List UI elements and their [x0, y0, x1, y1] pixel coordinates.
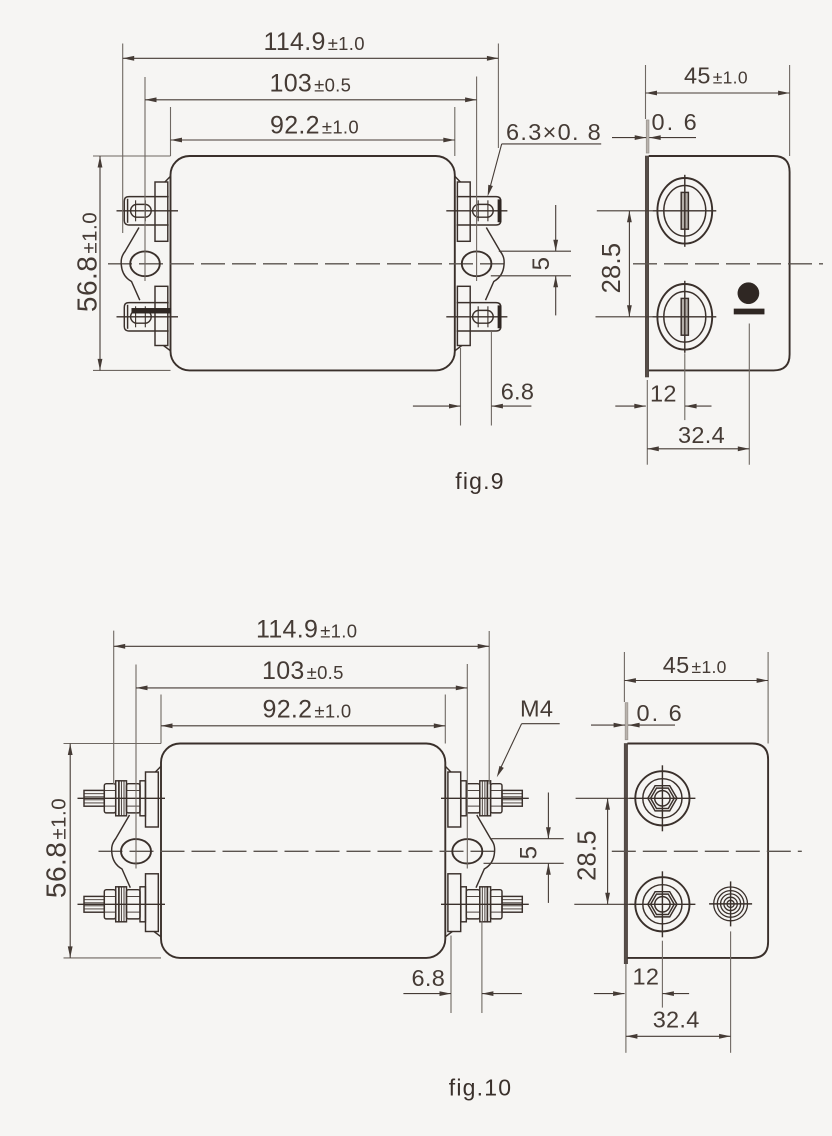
stud centerline	[441, 903, 529, 905]
fig.10 side: stud terminal (concentric)	[635, 877, 689, 931]
extension lines fig.10 top dims	[113, 631, 115, 785]
fig.10 filter body outline	[161, 744, 445, 958]
svg-text:12: 12	[633, 964, 660, 990]
fig.10 M4 threaded stud terminal	[84, 896, 104, 912]
terminal centerline	[117, 316, 179, 318]
terminal detent hole	[131, 204, 152, 217]
hex nut	[466, 890, 480, 919]
fig.9 filter body outline	[171, 156, 455, 370]
svg-text:6.8: 6.8	[501, 379, 535, 405]
crosshair	[661, 765, 663, 831]
svg-text:32.4: 32.4	[653, 1007, 700, 1033]
svg-text:92.2±1.0: 92.2±1.0	[270, 112, 359, 140]
fig.10 right flange edge profile	[476, 815, 495, 888]
terminal detent hole	[473, 204, 494, 217]
svg-text:92.2±1.0: 92.2±1.0	[263, 696, 352, 724]
dimension 12	[661, 941, 663, 1008]
fig.9 mounting flange tab	[155, 286, 168, 345]
fig.9 side: body outline	[649, 156, 790, 370]
svg-text:5: 5	[528, 257, 555, 271]
terminal centerline	[446, 210, 507, 212]
dimension 6.8	[460, 348, 462, 426]
fig.10 M4 threaded stud terminal	[84, 790, 104, 806]
fig.9 right flange edge profile	[486, 228, 505, 301]
dimension 28.5	[597, 210, 653, 212]
fig.9 side: earth stud symbol	[738, 283, 759, 304]
svg-text:114.9±1.0: 114.9±1.0	[264, 28, 365, 56]
tab blade (edge-on, solid)	[132, 308, 171, 313]
extension lines fig.9 top dims	[122, 44, 124, 234]
fig.10 mounting flange tab	[448, 874, 461, 932]
fig.10 M4 threaded stud terminal	[502, 896, 522, 912]
fig.10 side: earth stud (concentric)	[714, 887, 748, 921]
dimension 103±0.5	[136, 687, 467, 689]
svg-text:103±0.5: 103±0.5	[270, 70, 352, 98]
lock washer	[480, 887, 488, 922]
fig.10 left mounting hole	[121, 839, 151, 863]
dimension 5 (terminal offset)	[499, 250, 571, 252]
hex nut	[104, 890, 115, 919]
stud centerline	[78, 903, 166, 905]
fig.9 left mounting hole	[130, 251, 160, 276]
fig.9 mounting flange tab	[457, 286, 470, 345]
hex nut face	[648, 892, 677, 917]
crosshair	[661, 871, 663, 937]
fig.9 side: fast-on terminal (oval)	[657, 284, 712, 350]
hex nut	[491, 890, 502, 919]
terminal blade slot	[681, 192, 688, 229]
spacer plate	[140, 781, 145, 816]
spacer plate	[140, 887, 145, 922]
svg-text:fig.9: fig.9	[455, 468, 504, 494]
terminal centerline	[446, 316, 507, 318]
svg-text:0. 6: 0. 6	[652, 109, 699, 135]
dimension 5 (terminal offset)	[492, 838, 564, 840]
fig.9 right mounting hole	[462, 251, 492, 276]
dimension 45±1.0	[623, 652, 625, 702]
terminal centerline	[117, 210, 179, 212]
fig.10 side: centerline	[612, 850, 802, 852]
lock washer	[480, 781, 488, 816]
crosshair	[684, 175, 686, 247]
fig.9 quick-connect terminal tab	[124, 197, 168, 225]
dimension 6.8	[450, 936, 452, 1014]
fig.9 quick-connect terminal tab	[124, 303, 168, 331]
fig.9 left flange edge profile	[121, 228, 140, 301]
fig.10 side: stud terminal (concentric)	[635, 771, 689, 825]
washer	[487, 781, 490, 816]
svg-text:114.9±1.0: 114.9±1.0	[256, 616, 357, 644]
fig.10 M4 threaded stud terminal	[502, 790, 522, 806]
crosshair	[684, 281, 686, 353]
lock washer	[119, 781, 127, 816]
svg-text:M4: M4	[520, 696, 553, 722]
washer	[116, 781, 119, 816]
svg-text:6.3×0. 8: 6.3×0. 8	[506, 119, 602, 145]
washer	[116, 887, 119, 922]
washer	[487, 887, 490, 922]
fig.10 left flange edge profile	[112, 815, 131, 888]
fig.10 mounting flange tab	[448, 772, 461, 827]
svg-text:12: 12	[650, 381, 677, 407]
dimension 103±0.5	[145, 99, 477, 101]
fig.9 mounting flange tab	[457, 182, 470, 241]
fig.10 mounting flange tab	[146, 874, 159, 932]
svg-text:fig.10: fig.10	[449, 1075, 512, 1101]
dimension 28.5	[576, 797, 632, 799]
fig.10 right mounting hole	[452, 839, 482, 863]
fig.9 mounting flange tab	[155, 182, 168, 241]
stud centerline	[78, 797, 166, 799]
stud centerline	[441, 797, 529, 799]
fig.9 quick-connect terminal tab	[457, 303, 501, 331]
svg-text:103±0.5: 103±0.5	[262, 657, 344, 685]
terminal blade slot	[681, 298, 688, 335]
fig.10 side: panel flange	[625, 703, 628, 740]
dimension 92.2±1.0	[161, 725, 445, 727]
fig.9 side: centerline	[633, 263, 823, 265]
dimension 114.9±1.0	[123, 57, 499, 59]
tab blade (edge-on, solid)	[498, 200, 501, 222]
hex nut	[491, 784, 502, 813]
fig.9 side: panel flange (0.6 thick)	[646, 120, 649, 153]
hex nut	[127, 890, 141, 919]
svg-text:32.4: 32.4	[678, 422, 725, 448]
fig.10 side: body outline	[627, 744, 768, 958]
svg-text:0. 6: 0. 6	[637, 700, 684, 726]
fig.9 quick-connect terminal tab	[457, 197, 501, 225]
dimension 92.2±1.0	[171, 139, 455, 141]
dimension 45±1.0	[645, 65, 647, 119]
terminal detent hole	[473, 310, 494, 323]
svg-text:5: 5	[516, 846, 543, 860]
lock washer	[119, 887, 127, 922]
svg-text:28.5: 28.5	[598, 243, 626, 294]
fig.9 side: fast-on terminal (oval)	[657, 178, 712, 244]
fig.9 horizontal centerline	[108, 263, 511, 265]
svg-text:28.5: 28.5	[574, 830, 602, 881]
terminal detent hole	[131, 310, 152, 323]
dimension 56.8±1.0	[64, 743, 162, 745]
spacer plate	[461, 781, 466, 816]
dimension 32.4	[625, 964, 627, 1053]
hex nut face	[648, 786, 677, 811]
dimension 114.9±1.0	[114, 645, 490, 647]
fig.10 mounting flange tab	[146, 772, 159, 827]
dimension 32.4	[646, 380, 648, 465]
dimension 56.8±1.0	[93, 155, 171, 157]
dimension 12	[684, 353, 686, 420]
fig.10 horizontal centerline	[99, 850, 502, 852]
hex nut	[466, 784, 480, 813]
hex nut	[127, 784, 141, 813]
svg-text:6.8: 6.8	[412, 965, 446, 991]
hex nut	[104, 784, 115, 813]
tab blade (edge-on, solid)	[498, 306, 501, 328]
spacer plate	[461, 887, 466, 922]
